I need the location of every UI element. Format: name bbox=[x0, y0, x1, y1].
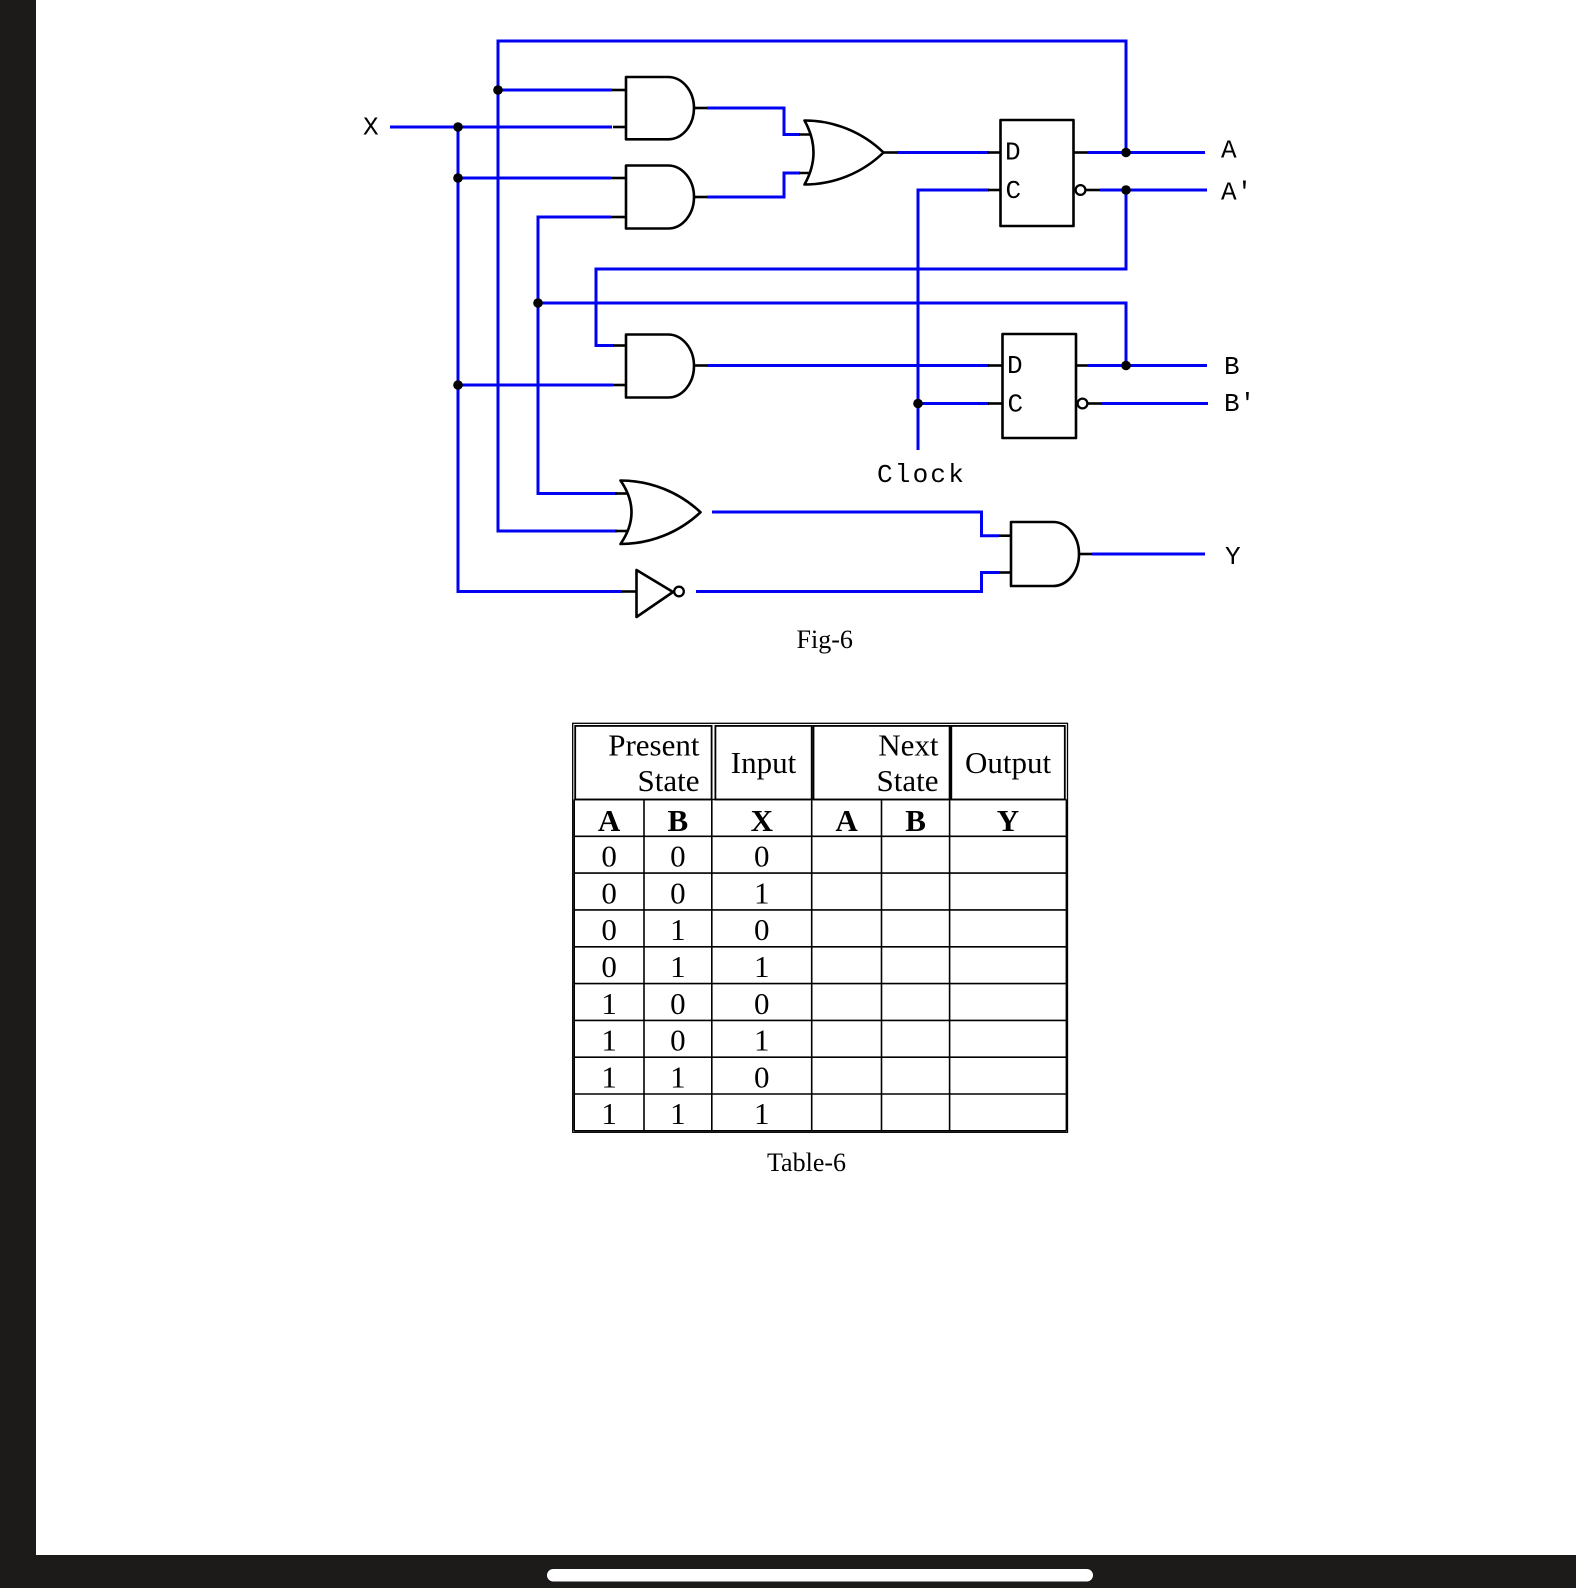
wire and gate G4 output to U2 D input bbox=[707, 364, 989, 367]
svg-text:1: 1 bbox=[670, 1096, 686, 1131]
wire X input bbox=[390, 126, 612, 129]
d flip-flop U1 box bbox=[1001, 120, 1074, 226]
bottom scrollbar pill bbox=[547, 1569, 1093, 1582]
wire X bus to and gate G4 bottom input bbox=[458, 384, 613, 387]
pin stub U2 Q output bbox=[1076, 364, 1088, 367]
pin stub U1 Q' output bbox=[1086, 189, 1101, 192]
svg-text:1: 1 bbox=[601, 1023, 617, 1058]
svg-text:B: B bbox=[1224, 352, 1240, 382]
svg-text:Output: Output bbox=[965, 745, 1052, 780]
svg-text:Y: Y bbox=[1225, 542, 1241, 572]
svg-text:B: B bbox=[905, 803, 926, 838]
wire X vertical bus to NOT gate input bbox=[458, 127, 622, 592]
svg-text:C: C bbox=[1006, 176, 1022, 206]
svg-text:1: 1 bbox=[670, 949, 686, 984]
svg-text:0: 0 bbox=[670, 839, 686, 874]
svg-text:1: 1 bbox=[601, 1059, 617, 1094]
and gate G4 bbox=[626, 335, 694, 398]
d flip-flop U2 Q' bubble bbox=[1078, 399, 1088, 409]
svg-text:0: 0 bbox=[670, 986, 686, 1021]
svg-text:Table-6: Table-6 bbox=[767, 1148, 846, 1177]
pin stub U2 D input bbox=[988, 364, 1003, 367]
svg-text:D: D bbox=[1007, 351, 1023, 381]
wire B bus: and G2 bottom input, down, to or gate G5 top input bbox=[538, 217, 617, 494]
pin stub G4 input 2 bbox=[613, 384, 627, 387]
pin stub U1 C input bbox=[988, 189, 1001, 192]
d flip-flop U1 Q' bubble bbox=[1076, 185, 1086, 195]
table header cell Next State bbox=[814, 726, 950, 800]
pin stub G5 input 1 bbox=[615, 492, 631, 495]
svg-text:Clock: Clock bbox=[877, 460, 966, 490]
junction X input bbox=[453, 122, 463, 132]
not gate G6 bbox=[637, 570, 674, 617]
pin stub G1 input 2 bbox=[613, 126, 627, 129]
svg-text:Next: Next bbox=[878, 728, 939, 763]
svg-text:0: 0 bbox=[754, 986, 770, 1021]
svg-text:0: 0 bbox=[670, 875, 686, 910]
svg-text:A': A' bbox=[1221, 178, 1252, 208]
pin stub U2 C input bbox=[988, 402, 1003, 405]
junction X bus at G2 input bbox=[453, 173, 463, 183]
svg-text:X: X bbox=[363, 113, 379, 143]
wire B' output bbox=[1101, 402, 1208, 405]
pin stub G2 input 2 bbox=[611, 216, 627, 219]
pin stub G7 input 2 bbox=[999, 571, 1012, 574]
wire and gate G1 output to or gate G3 bbox=[707, 108, 800, 135]
svg-text:0: 0 bbox=[754, 1059, 770, 1094]
svg-text:1: 1 bbox=[601, 1096, 617, 1131]
or gate G5 bbox=[621, 481, 701, 545]
wire A output bbox=[1088, 151, 1205, 154]
pin stub G7 input 1 bbox=[999, 534, 1012, 537]
svg-text:Input: Input bbox=[731, 745, 797, 780]
pin stub G3 input 2 bbox=[799, 172, 817, 175]
pin stub G2 output bbox=[694, 196, 707, 199]
svg-text:1: 1 bbox=[754, 1023, 770, 1058]
svg-text:0: 0 bbox=[601, 912, 617, 947]
pin stub G7 output bbox=[1079, 553, 1092, 556]
svg-text:0: 0 bbox=[670, 1023, 686, 1058]
svg-text:State: State bbox=[638, 763, 700, 798]
table header cell Present State bbox=[575, 726, 711, 800]
svg-text:B: B bbox=[668, 803, 689, 838]
and gate G2 bbox=[626, 166, 694, 229]
svg-text:C: C bbox=[1008, 390, 1024, 420]
junction node A bbox=[1121, 148, 1131, 158]
svg-text:1: 1 bbox=[670, 912, 686, 947]
left browser chrome bar bbox=[0, 0, 36, 1588]
pin stub G6 input bbox=[622, 590, 637, 593]
wire A bus to and gate G1 top input bbox=[498, 89, 612, 92]
wire B output bbox=[1088, 364, 1207, 367]
wire clock net to U1 C input and down bbox=[918, 190, 989, 450]
pin stub G3 output bbox=[884, 151, 898, 154]
pin stub G1 input 1 bbox=[612, 89, 627, 92]
svg-text:0: 0 bbox=[754, 912, 770, 947]
pin stub U2 Q' output bbox=[1088, 402, 1102, 405]
d flip-flop U2 box bbox=[1003, 334, 1077, 438]
table data bbox=[601, 839, 769, 1132]
wire or gate G5 output to and gate G7 top input bbox=[712, 512, 999, 536]
svg-text:1: 1 bbox=[670, 1059, 686, 1094]
svg-text:A: A bbox=[835, 803, 858, 838]
junction on A bus at G1 input bbox=[493, 85, 503, 95]
wire X bus to and gate G2 top input bbox=[458, 177, 611, 180]
and gate G7 bbox=[1011, 522, 1079, 586]
wire B feedback from B output junction bbox=[538, 303, 1126, 366]
svg-text:0: 0 bbox=[601, 949, 617, 984]
svg-text:X: X bbox=[751, 803, 774, 838]
wire or gate G3 output to U1 D input bbox=[897, 151, 989, 154]
svg-text:A: A bbox=[598, 803, 621, 838]
junction node B bbox=[1121, 361, 1131, 371]
junction clock at U2 C bbox=[913, 399, 923, 409]
svg-text:1: 1 bbox=[754, 875, 770, 910]
wire Y output bbox=[1092, 553, 1205, 556]
or gate G3 bbox=[805, 120, 884, 184]
pin stub G2 input 1 bbox=[611, 177, 627, 180]
table header cell Input bbox=[715, 726, 811, 800]
pin stub U1 D input bbox=[988, 151, 1001, 154]
pin stub U1 Q output bbox=[1074, 151, 1089, 154]
svg-text:1: 1 bbox=[601, 986, 617, 1021]
table header cell Output bbox=[951, 726, 1065, 800]
svg-text:1: 1 bbox=[754, 1096, 770, 1131]
svg-text:Present: Present bbox=[608, 728, 700, 763]
svg-text:1: 1 bbox=[754, 949, 770, 984]
wire NOT gate G6 output to and gate G7 bottom input bbox=[696, 573, 999, 592]
pin stub G4 output bbox=[694, 364, 707, 367]
pin stub G1 output bbox=[694, 107, 707, 110]
junction X bus at G4 input bbox=[453, 380, 463, 390]
table outer border bbox=[573, 723, 1068, 1132]
wire clock to U2 C input bbox=[918, 402, 989, 405]
svg-text:State: State bbox=[877, 763, 939, 798]
pin stub G5 input 2 bbox=[615, 530, 631, 533]
bottom browser chrome bar bbox=[0, 1555, 1576, 1588]
svg-text:Y: Y bbox=[997, 803, 1019, 838]
junction node A' bbox=[1121, 185, 1131, 195]
wire A' feedback to and gate G4 top input bbox=[596, 190, 1126, 346]
wire and gate G2 output to or gate G3 bbox=[707, 173, 800, 197]
junction B feedback bbox=[533, 298, 543, 308]
svg-text:B': B' bbox=[1224, 389, 1255, 419]
svg-text:Fig-6: Fig-6 bbox=[797, 625, 853, 654]
svg-text:D: D bbox=[1005, 138, 1021, 168]
svg-text:A: A bbox=[1221, 136, 1237, 166]
pin stub G4 input 1 bbox=[613, 344, 627, 347]
pin stub G3 input 1 bbox=[799, 133, 817, 136]
and gate G1 bbox=[626, 77, 694, 139]
svg-text:0: 0 bbox=[601, 839, 617, 874]
table body grid bbox=[574, 800, 1066, 1131]
not gate G6 bubble bbox=[674, 587, 684, 597]
wire A' output bbox=[1100, 189, 1207, 192]
svg-text:0: 0 bbox=[754, 839, 770, 874]
svg-text:0: 0 bbox=[601, 875, 617, 910]
wire A feedback: top net from A junction up over to and gate G1 top input bus and or gate G5 lower input bbox=[498, 41, 1126, 531]
